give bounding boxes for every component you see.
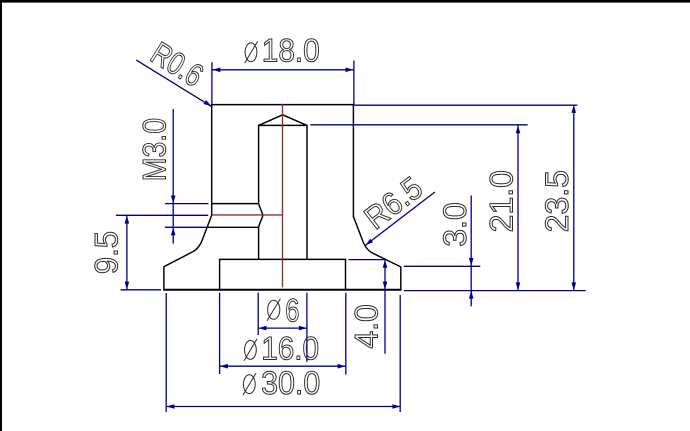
arrow M3 top (outside) xyxy=(171,196,176,204)
ext line M3 top xyxy=(165,203,209,205)
ext line D30 right xyxy=(399,295,401,412)
text D6 xyxy=(267,299,280,321)
center hole right wall xyxy=(306,125,308,259)
red centerlines xyxy=(212,104,283,287)
svg-text:30.0: 30.0 xyxy=(261,365,320,401)
center hole cone xyxy=(259,115,307,126)
text D18.0 xyxy=(245,41,258,63)
dim line D6 xyxy=(258,327,307,329)
ext line D6 left xyxy=(257,293,259,335)
svg-text:18.0: 18.0 xyxy=(262,33,320,69)
border left xyxy=(0,0,2,431)
M3 side hole top line xyxy=(212,203,259,205)
M3 hole axis centerline xyxy=(212,214,283,216)
ext line 23.5 top xyxy=(354,104,577,106)
svg-text:3.0: 3.0 xyxy=(437,202,473,246)
svg-text:9.5: 9.5 xyxy=(88,231,124,274)
center hole left wall xyxy=(258,125,260,259)
ext line flange top right xyxy=(404,265,481,267)
arrow D6 right xyxy=(299,326,307,331)
M3 side hole bottom line xyxy=(209,226,259,228)
dim line 4.0 xyxy=(384,260,386,354)
arrow D18 left xyxy=(212,68,220,73)
arrow D16 right xyxy=(338,364,346,369)
svg-text:16.0: 16.0 xyxy=(261,330,319,366)
arrow D30 right xyxy=(392,404,400,409)
arrow D6 left xyxy=(258,326,266,331)
dim line M3.0 xyxy=(172,109,174,244)
top face xyxy=(212,104,354,106)
arrow 23.5 top xyxy=(572,105,577,113)
arrow M3 bottom (outside) xyxy=(171,227,176,235)
arrow R6.5 leader xyxy=(365,239,373,246)
dim line D30 xyxy=(166,406,400,408)
center hole cone base line xyxy=(259,124,307,126)
arrow 3.0 top (outside) xyxy=(469,258,474,266)
ext line D30 left xyxy=(165,293,167,412)
dim line D16 xyxy=(220,365,346,367)
ext line bottom right xyxy=(404,290,586,292)
ext line 21.0 top xyxy=(310,124,527,126)
dim line 3.0 xyxy=(470,195,472,306)
arrow 4.0 bottom xyxy=(383,282,388,290)
ext line bottom left xyxy=(121,289,162,291)
dimension lines (blue) xyxy=(116,60,586,412)
arrow D30 left xyxy=(166,404,174,409)
left taper profile xyxy=(164,215,212,289)
ext line D18 right xyxy=(353,61,355,105)
ext line recess top xyxy=(349,259,386,261)
text D30.0 xyxy=(243,373,256,395)
dim line 23.5 xyxy=(573,105,575,291)
ext line M3 bottom xyxy=(165,226,209,228)
vertical centerline xyxy=(282,104,284,287)
border top xyxy=(0,0,690,3)
dim line 9.5 xyxy=(126,216,128,290)
dim line D18 xyxy=(212,69,354,71)
part outline xyxy=(164,105,401,290)
bottom recess outline xyxy=(220,259,346,289)
arrow 9.5 top xyxy=(125,216,130,224)
leader R0.6 xyxy=(136,60,211,106)
ext line D16 left xyxy=(219,293,221,374)
ext line D18 left xyxy=(211,62,213,104)
dim line 21.0 xyxy=(517,125,519,290)
arrow 21.0 top xyxy=(516,125,521,133)
svg-text:4.0: 4.0 xyxy=(349,304,385,348)
left wall xyxy=(211,105,213,216)
arrow 9.5 bottom xyxy=(125,282,130,290)
right taper profile xyxy=(353,217,400,290)
svg-text:6: 6 xyxy=(285,294,299,329)
svg-text:M3.0: M3.0 xyxy=(138,118,173,181)
leader R6.5 xyxy=(365,192,435,245)
arrow 23.5 bottom xyxy=(572,282,577,290)
svg-text:21.0: 21.0 xyxy=(484,170,520,232)
M3 side hole drill tip xyxy=(258,204,263,228)
dimension texts xyxy=(88,33,575,401)
ext line D6 right xyxy=(306,293,308,362)
arrow 3.0 bottom (outside) xyxy=(469,291,474,299)
right wall xyxy=(352,105,354,217)
bottom face xyxy=(164,289,401,291)
ext line D16 right xyxy=(345,293,347,375)
arrow R0.6 leader xyxy=(204,100,212,106)
text D16.0 xyxy=(244,339,257,361)
ext line 9.5 top (M3 axis) xyxy=(116,214,208,216)
arrow D18 right xyxy=(346,68,354,73)
arrow 4.0 top xyxy=(383,260,388,268)
arrowheads (blue) xyxy=(125,68,576,409)
arrow 21.0 bottom xyxy=(516,282,521,290)
arrow D16 left xyxy=(220,364,228,369)
svg-text:23.5: 23.5 xyxy=(539,170,575,232)
